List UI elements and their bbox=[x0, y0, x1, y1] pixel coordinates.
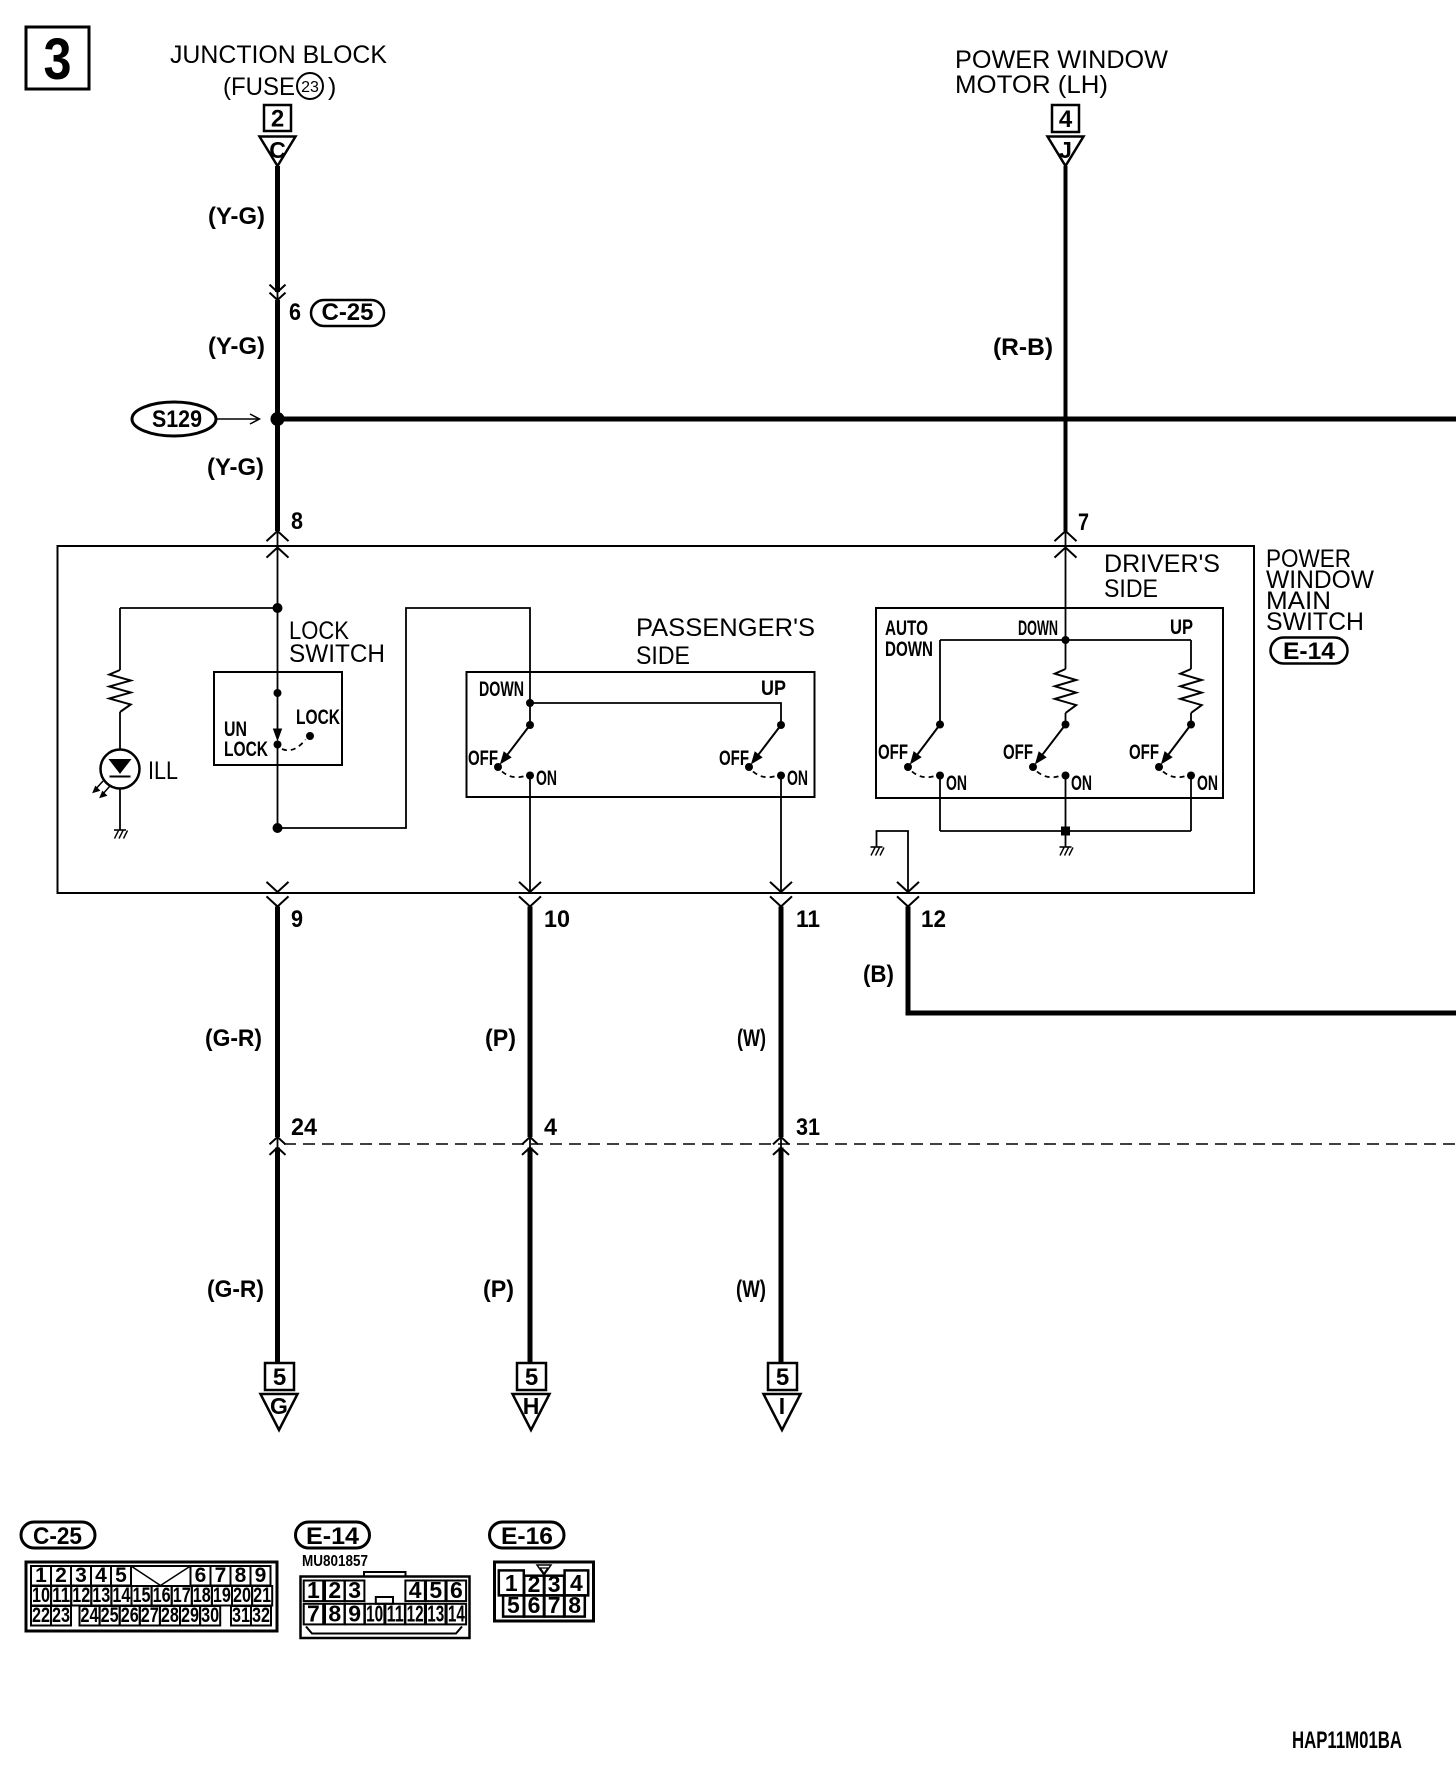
svg-text:3: 3 bbox=[44, 27, 72, 92]
svg-text:6: 6 bbox=[528, 1592, 541, 1618]
svg-text:OFF: OFF bbox=[468, 747, 498, 770]
ground pin 12 stub bbox=[871, 846, 883, 848]
connector 5 terminal H bbox=[517, 1363, 546, 1390]
svg-text:31: 31 bbox=[796, 1114, 820, 1141]
svg-text:(G-R): (G-R) bbox=[205, 1025, 262, 1052]
node auto-down OFF contact bbox=[904, 763, 912, 771]
wire pin7 into driver box bbox=[1065, 531, 1067, 640]
svg-text:MU801857: MU801857 bbox=[302, 1553, 368, 1570]
driver up switch arm bbox=[1168, 725, 1191, 755]
node passenger up ON contact bbox=[777, 772, 785, 780]
node UNLOCK contact bbox=[274, 741, 282, 749]
svg-text:(W): (W) bbox=[736, 1276, 766, 1303]
dashed throw arc auto-down bbox=[912, 772, 935, 778]
pin 9 chevrons bbox=[267, 882, 289, 892]
svg-text:28: 28 bbox=[161, 1604, 179, 1627]
svg-text:2: 2 bbox=[328, 1577, 341, 1603]
wire bus junction to ground bbox=[1065, 831, 1067, 847]
junction dot S129 bbox=[271, 412, 285, 426]
svg-text:POWER WINDOW: POWER WINDOW bbox=[955, 46, 1168, 74]
connector C-25 row 3 bbox=[31, 1606, 51, 1626]
svg-text:10: 10 bbox=[544, 906, 570, 933]
svg-text:5: 5 bbox=[525, 1364, 538, 1391]
svg-text:7: 7 bbox=[1078, 509, 1089, 536]
svg-text:AUTO: AUTO bbox=[885, 617, 928, 640]
driver down switch arm bbox=[1042, 725, 1065, 755]
power window main switch box bbox=[58, 546, 1255, 893]
svg-text:C-25: C-25 bbox=[322, 299, 374, 326]
svg-text:23: 23 bbox=[301, 79, 319, 96]
svg-text:HAP11M01BA: HAP11M01BA bbox=[1292, 1727, 1402, 1754]
node lock switch common bbox=[274, 689, 282, 697]
node driver down pivot bbox=[1062, 721, 1070, 729]
node passenger down OFF contact bbox=[494, 763, 502, 771]
node driver down OFF contact bbox=[1029, 763, 1037, 771]
wire G-R lower bbox=[275, 1148, 280, 1363]
svg-text:(R-B): (R-B) bbox=[993, 334, 1053, 361]
passenger down switch arm bbox=[507, 725, 530, 755]
resistor ILL branch bbox=[119, 608, 121, 670]
wire passenger DOWN to pivot bbox=[529, 703, 531, 725]
svg-text:DOWN: DOWN bbox=[479, 678, 524, 701]
svg-text:OFF: OFF bbox=[1129, 741, 1159, 764]
wire passenger up output to pin 11 bbox=[780, 776, 782, 893]
svg-text:3: 3 bbox=[348, 1577, 361, 1603]
wire pin 12 to ground stub bbox=[877, 831, 909, 892]
svg-text:(Y-G): (Y-G) bbox=[208, 333, 265, 360]
svg-text:11: 11 bbox=[387, 1600, 404, 1626]
svg-text:LOCK: LOCK bbox=[224, 738, 268, 761]
joint 31 chevrons bbox=[773, 1137, 789, 1144]
svg-text:14: 14 bbox=[448, 1600, 465, 1626]
node driver up OFF contact bbox=[1155, 763, 1163, 771]
connector 5 terminal I bbox=[768, 1363, 797, 1390]
node passenger down pivot bbox=[526, 721, 534, 729]
svg-text:SIDE: SIDE bbox=[1104, 575, 1158, 603]
node lock output junction bbox=[273, 823, 283, 833]
svg-text:H: H bbox=[523, 1393, 540, 1419]
wire driver down output bbox=[1065, 776, 1067, 832]
node driver up ON contact bbox=[1187, 772, 1195, 780]
splice S129 label oval bbox=[132, 402, 216, 436]
svg-text:(W): (W) bbox=[737, 1025, 766, 1052]
node bottom bus junction square bbox=[1061, 827, 1070, 836]
svg-text:11: 11 bbox=[796, 906, 820, 933]
svg-text:24: 24 bbox=[291, 1114, 318, 1141]
dashed throw arc driver up bbox=[1163, 772, 1186, 778]
svg-text:OFF: OFF bbox=[878, 741, 908, 764]
terminal J triangle bbox=[1048, 137, 1084, 167]
svg-text:SIDE: SIDE bbox=[636, 642, 690, 670]
svg-text:12: 12 bbox=[921, 906, 946, 933]
wire Y-G from splice to pin 8 bbox=[275, 419, 280, 531]
node auto-down ON contact bbox=[936, 772, 944, 780]
svg-text:): ) bbox=[328, 73, 336, 101]
svg-text:ON: ON bbox=[787, 767, 808, 790]
lock switch box bbox=[214, 672, 342, 765]
svg-text:DRIVER'S: DRIVER'S bbox=[1104, 550, 1220, 578]
svg-text:22: 22 bbox=[32, 1604, 50, 1627]
dashed harness boundary line bbox=[284, 1143, 1456, 1145]
svg-text:6: 6 bbox=[450, 1577, 463, 1603]
wire driver bus bbox=[940, 639, 1191, 641]
svg-text:ON: ON bbox=[1071, 772, 1092, 795]
pin 12 chevrons bbox=[897, 882, 919, 892]
svg-text:5: 5 bbox=[429, 1577, 442, 1603]
connector E-14 bottom lip bbox=[306, 1627, 462, 1634]
svg-text:9: 9 bbox=[291, 906, 303, 933]
connector E-16 index triangle bbox=[537, 1565, 551, 1575]
svg-text:J: J bbox=[1059, 137, 1072, 163]
svg-text:13: 13 bbox=[427, 1600, 444, 1626]
wire G-R pin 9 down bbox=[275, 907, 280, 1138]
wire W pin 11 down bbox=[779, 907, 784, 1138]
node passenger DOWN contact bbox=[526, 699, 534, 707]
wire lock switch output bbox=[277, 745, 279, 829]
connector table E-16 label bbox=[490, 1522, 565, 1548]
svg-text:(Y-G): (Y-G) bbox=[208, 203, 265, 230]
wire Y-G from junction block to C-25 bbox=[275, 166, 280, 292]
wire jumper lock output to passenger feed bbox=[278, 608, 531, 828]
svg-text:8: 8 bbox=[291, 508, 303, 535]
svg-text:5: 5 bbox=[273, 1364, 286, 1391]
svg-text:9: 9 bbox=[348, 1600, 361, 1626]
connector table E-14 label bbox=[296, 1522, 370, 1548]
resistor driver down bbox=[1065, 640, 1067, 669]
lock switch arm to UNLOCK bbox=[277, 693, 279, 729]
wire pin8 into lock switch bbox=[277, 531, 279, 693]
node driver down ON contact bbox=[1062, 772, 1070, 780]
wire passenger down output to pin 10 bbox=[529, 776, 531, 893]
svg-text:ILL: ILL bbox=[148, 757, 178, 785]
driver side switch box bbox=[876, 608, 1223, 798]
svg-text:LOCK: LOCK bbox=[296, 706, 340, 729]
svg-text:UP: UP bbox=[761, 677, 786, 700]
svg-text:UP: UP bbox=[1170, 616, 1193, 639]
svg-text:SWITCH: SWITCH bbox=[289, 640, 385, 668]
svg-text:DOWN: DOWN bbox=[1018, 617, 1058, 640]
node passenger down ON contact bbox=[526, 772, 534, 780]
pin 10 chevrons bbox=[519, 882, 541, 892]
joint 24 chevrons bbox=[270, 1137, 286, 1144]
svg-text:2: 2 bbox=[271, 106, 284, 133]
terminal C triangle bbox=[260, 137, 296, 167]
svg-text:12: 12 bbox=[407, 1600, 424, 1626]
svg-text:10: 10 bbox=[366, 1600, 383, 1626]
svg-text:C: C bbox=[269, 137, 286, 163]
connector C-25 row 2 bbox=[31, 1586, 51, 1606]
connector code E-14 box bbox=[1271, 638, 1348, 664]
wire driver up output bbox=[1190, 776, 1192, 832]
svg-text:26: 26 bbox=[121, 1604, 139, 1627]
svg-text:4: 4 bbox=[409, 1577, 422, 1603]
dashed throw arc passenger down bbox=[502, 772, 525, 778]
svg-text:E-16: E-16 bbox=[501, 1523, 553, 1550]
dashed throw arc lock switch bbox=[282, 740, 306, 751]
wire LED to ground bbox=[119, 789, 121, 831]
svg-text:4: 4 bbox=[1059, 106, 1073, 133]
connector 5 terminal G bbox=[265, 1363, 294, 1390]
svg-text:ON: ON bbox=[536, 767, 557, 790]
svg-text:OFF: OFF bbox=[719, 747, 749, 770]
connector 2 junction block bbox=[264, 105, 291, 131]
svg-text:24: 24 bbox=[81, 1604, 99, 1627]
connector table E-14 body bbox=[301, 1577, 470, 1639]
svg-text:31: 31 bbox=[232, 1604, 250, 1627]
svg-text:7: 7 bbox=[307, 1600, 320, 1626]
svg-text:1: 1 bbox=[307, 1577, 320, 1603]
svg-text:30: 30 bbox=[201, 1604, 219, 1627]
wire driver bottom bus bbox=[940, 830, 1191, 832]
LED ILL bbox=[101, 750, 140, 789]
svg-text:G: G bbox=[270, 1393, 288, 1419]
connector table E-16 body bbox=[495, 1562, 594, 1621]
wire bus left to auto-down pivot bbox=[939, 640, 941, 725]
svg-text:SWITCH: SWITCH bbox=[1266, 608, 1364, 636]
connector code C-25 box bbox=[311, 300, 384, 326]
wire passenger bus DOWN to UP bbox=[530, 703, 781, 725]
wire to ILL branch bbox=[120, 607, 278, 609]
svg-text:32: 32 bbox=[252, 1604, 270, 1627]
svg-text:ON: ON bbox=[1197, 772, 1218, 795]
connector table C-25 body bbox=[26, 1562, 277, 1631]
node driver up pivot bbox=[1187, 721, 1195, 729]
pin 11 chevrons bbox=[770, 882, 792, 892]
ground ILL bbox=[114, 829, 126, 831]
node lock switch feed bbox=[273, 603, 283, 613]
wire P lower bbox=[528, 1148, 533, 1363]
wire R-B from motor to pin 7 bbox=[1064, 166, 1068, 531]
wire bus right to up resistor bbox=[1190, 640, 1192, 669]
svg-text:PASSENGER'S: PASSENGER'S bbox=[636, 614, 815, 642]
dashed throw arc driver down bbox=[1037, 772, 1060, 778]
wire auto-down output to bottom bus bbox=[939, 776, 941, 832]
svg-text:23: 23 bbox=[52, 1604, 70, 1627]
wire Y-G from C-25 to splice S129 bbox=[275, 300, 280, 419]
sheet number box 3 bbox=[26, 27, 89, 89]
wire P pin 10 down bbox=[528, 907, 533, 1138]
svg-text:C-25: C-25 bbox=[33, 1523, 82, 1550]
svg-text:(B): (B) bbox=[863, 961, 894, 988]
arrow from S129 to junction bbox=[216, 418, 258, 420]
wire S129 horizontal bus to right edge bbox=[278, 417, 1456, 422]
node passenger up pivot bbox=[777, 721, 785, 729]
svg-text:5: 5 bbox=[776, 1364, 789, 1391]
resistor driver up bbox=[1180, 669, 1201, 713]
svg-text:MOTOR (LH): MOTOR (LH) bbox=[955, 71, 1108, 99]
wire W lower bbox=[779, 1148, 784, 1363]
inline connector joint pin6 C-25 bbox=[270, 285, 286, 292]
svg-text:OFF: OFF bbox=[1003, 741, 1033, 764]
wire B from pin 12 to right edge bbox=[908, 907, 1456, 1014]
joint 4 chevrons bbox=[522, 1137, 538, 1144]
svg-text:S129: S129 bbox=[152, 406, 202, 433]
svg-text:29: 29 bbox=[181, 1604, 199, 1627]
node driver feed junction bbox=[1062, 636, 1070, 644]
svg-text:5: 5 bbox=[507, 1592, 520, 1618]
svg-text:27: 27 bbox=[141, 1604, 159, 1627]
svg-text:8: 8 bbox=[568, 1592, 581, 1618]
connector E-16 pin cells bbox=[499, 1570, 524, 1595]
ground driver switch bbox=[1060, 846, 1072, 848]
svg-text:(G-R): (G-R) bbox=[207, 1276, 264, 1303]
connector C-25 key notch bbox=[131, 1566, 191, 1586]
wire resistor to LED bbox=[119, 712, 121, 750]
connector 4 power window motor bbox=[1052, 105, 1079, 132]
connector E-14 middle tab bbox=[376, 1597, 393, 1604]
node passenger up OFF contact bbox=[745, 763, 753, 771]
LED emission arrows bbox=[94, 781, 103, 791]
auto-down switch arm bbox=[917, 725, 940, 755]
svg-text:E-14: E-14 bbox=[1283, 638, 1336, 665]
svg-text:4: 4 bbox=[544, 1114, 558, 1141]
svg-text:JUNCTION BLOCK: JUNCTION BLOCK bbox=[170, 41, 387, 69]
dashed throw arc passenger up bbox=[753, 772, 776, 778]
svg-text:(P): (P) bbox=[483, 1276, 514, 1303]
pin 7 connector chevrons bbox=[1055, 531, 1077, 541]
passenger side switch box bbox=[467, 672, 815, 797]
svg-text:ON: ON bbox=[946, 772, 967, 795]
svg-text:7: 7 bbox=[548, 1592, 561, 1618]
svg-text:6: 6 bbox=[289, 299, 301, 326]
svg-text:8: 8 bbox=[328, 1600, 341, 1626]
svg-text:25: 25 bbox=[101, 1604, 119, 1627]
svg-text:E-14: E-14 bbox=[306, 1523, 360, 1550]
connector table C-25 label bbox=[21, 1522, 95, 1548]
node auto-down pivot bbox=[936, 721, 944, 729]
node LOCK contact bbox=[306, 732, 314, 740]
svg-text:I: I bbox=[779, 1393, 785, 1419]
svg-text:(FUSE: (FUSE bbox=[223, 73, 295, 101]
passenger up switch arm bbox=[758, 725, 781, 755]
svg-text:(P): (P) bbox=[485, 1025, 516, 1052]
pin 8 connector chevrons bbox=[267, 531, 289, 541]
svg-text:DOWN: DOWN bbox=[885, 638, 933, 661]
svg-text:(Y-G): (Y-G) bbox=[207, 454, 264, 481]
